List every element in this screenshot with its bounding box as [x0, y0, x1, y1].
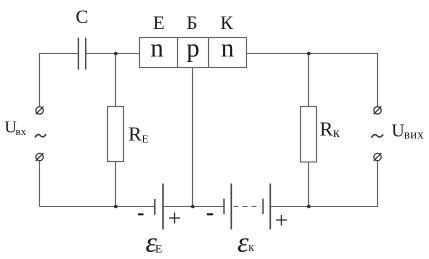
wire base (p region to bottom node): [192, 68, 194, 207]
svg-text:Б: Б: [187, 13, 198, 34]
transistor VT1 n-p-n block body: [140, 38, 247, 68]
junction node base-bottom: [191, 205, 195, 209]
battery GB1 positive plate (long): [162, 184, 164, 230]
wire R_K stem bottom: [308, 162, 310, 207]
battery GB1 plus sign: [169, 213, 180, 224]
wire bottom-left horizontal to battery GB1: [40, 206, 156, 208]
svg-text:n: n: [221, 34, 234, 63]
wire battery GB2 to bottom-right corner: [270, 161, 377, 207]
battery GB2 plus sign: [276, 215, 287, 226]
output AC tilde: [371, 134, 383, 137]
svg-text:Е: Е: [153, 13, 165, 34]
junction node at R_K bottom: [307, 205, 311, 209]
output terminal bottom: [374, 153, 382, 161]
battery GB2 negative plate 1 (short): [223, 199, 225, 214]
battery GB1 negative plate (short): [154, 199, 156, 215]
svg-text:К: К: [220, 13, 233, 34]
battery GB2 positive plate 2 (long): [269, 184, 271, 230]
battery GB2 dashed cell link: [234, 206, 262, 208]
wire capacitor to transistor block: [86, 53, 140, 55]
wire battery GB1 to battery GB2: [163, 206, 224, 208]
svg-text:вих: вих: [404, 128, 424, 142]
wire R_K stem top: [308, 54, 310, 107]
wire top-left horizontal (input corner to capacitor): [40, 54, 79, 107]
wire transistor block to top-right corner: [247, 54, 378, 107]
resistor R_K body: [301, 107, 317, 163]
battery GB2 positive plate 1 (long): [230, 184, 232, 230]
wire R_E stem bottom: [115, 161, 117, 207]
svg-text:C: C: [76, 7, 89, 28]
input terminal top: [36, 107, 44, 115]
svg-text:Е: Е: [155, 241, 162, 255]
battery GB2 negative plate 2 (short): [262, 199, 264, 214]
junction node at C / R_E: [114, 52, 118, 56]
junction node at R_K top: [307, 52, 311, 56]
battery GB2 minus sign: [207, 213, 213, 215]
svg-text:n: n: [151, 34, 164, 63]
svg-text:вх: вх: [16, 126, 27, 138]
junction node at R_E bottom: [114, 205, 118, 209]
capacitor C plates: [78, 38, 85, 70]
resistor R_E body: [108, 107, 124, 162]
svg-text:к: к: [248, 240, 255, 254]
input terminal bottom: [36, 153, 44, 161]
output terminal top: [374, 106, 382, 114]
battery GB1 minus sign: [138, 213, 144, 215]
wire left vertical below input terminal: [39, 161, 41, 207]
svg-text:p: p: [187, 34, 200, 63]
svg-text:U: U: [392, 121, 405, 141]
wire R_E stem top: [115, 54, 117, 107]
input AC tilde: [35, 134, 46, 137]
